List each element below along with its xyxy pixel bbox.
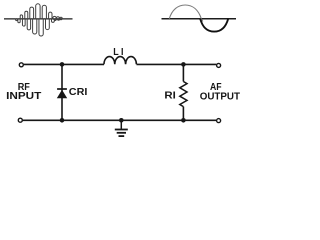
node: resistor bottom junction bbox=[181, 118, 186, 123]
terminal: RF input bottom (open circle) bbox=[18, 118, 22, 122]
wire: resistor top lead bbox=[182, 64, 184, 81]
svg-text:CRI: CRI bbox=[69, 87, 88, 98]
svg-text:RI: RI bbox=[164, 91, 176, 102]
AM modulated RF waveform axis bbox=[4, 18, 73, 20]
inductor L1 bbox=[104, 57, 136, 65]
svg-text:OUTPUT: OUTPUT bbox=[200, 91, 240, 102]
svg-text:L I: L I bbox=[113, 47, 123, 58]
resistor R1 (zigzag) bbox=[180, 82, 187, 107]
diode CR1 (anode triangle) bbox=[57, 90, 67, 98]
wire: top rail left segment bbox=[24, 63, 104, 65]
terminal: RF input top (open circle) bbox=[19, 63, 23, 67]
node: ground junction bbox=[119, 118, 124, 123]
audio sine wave axis bbox=[162, 18, 237, 20]
terminal: AF output bottom (open circle) bbox=[217, 119, 221, 123]
wire: top rail right segment bbox=[137, 63, 217, 65]
node: diode bottom junction bbox=[60, 118, 65, 123]
wire: resistor bottom lead bbox=[182, 107, 184, 121]
diode CR1 (cathode bar) bbox=[57, 88, 67, 90]
wire: diode branch bbox=[61, 64, 63, 120]
audio sine wave negative half (black) bbox=[200, 19, 228, 32]
svg-text:INPUT: INPUT bbox=[6, 91, 41, 102]
AM carrier tail circles bbox=[53, 16, 56, 19]
terminal: AF output top (open circle) bbox=[217, 63, 221, 67]
audio sine wave positive half (gray) bbox=[169, 5, 203, 22]
wire: bottom rail bbox=[23, 119, 216, 121]
ground symbol bars bbox=[115, 129, 128, 131]
ground symbol stem bbox=[120, 120, 122, 129]
node: resistor top junction bbox=[181, 62, 186, 67]
node: diode top junction bbox=[60, 62, 65, 67]
AM modulated RF carrier loops bbox=[16, 4, 60, 36]
